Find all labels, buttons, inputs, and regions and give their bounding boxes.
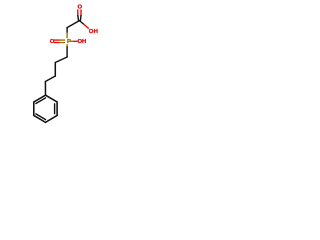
svg-text:H: H: [82, 39, 86, 45]
svg-text:O: O: [78, 5, 83, 11]
svg-text:P: P: [67, 39, 71, 45]
svg-text:H: H: [94, 29, 98, 35]
svg-text:O: O: [50, 39, 55, 45]
